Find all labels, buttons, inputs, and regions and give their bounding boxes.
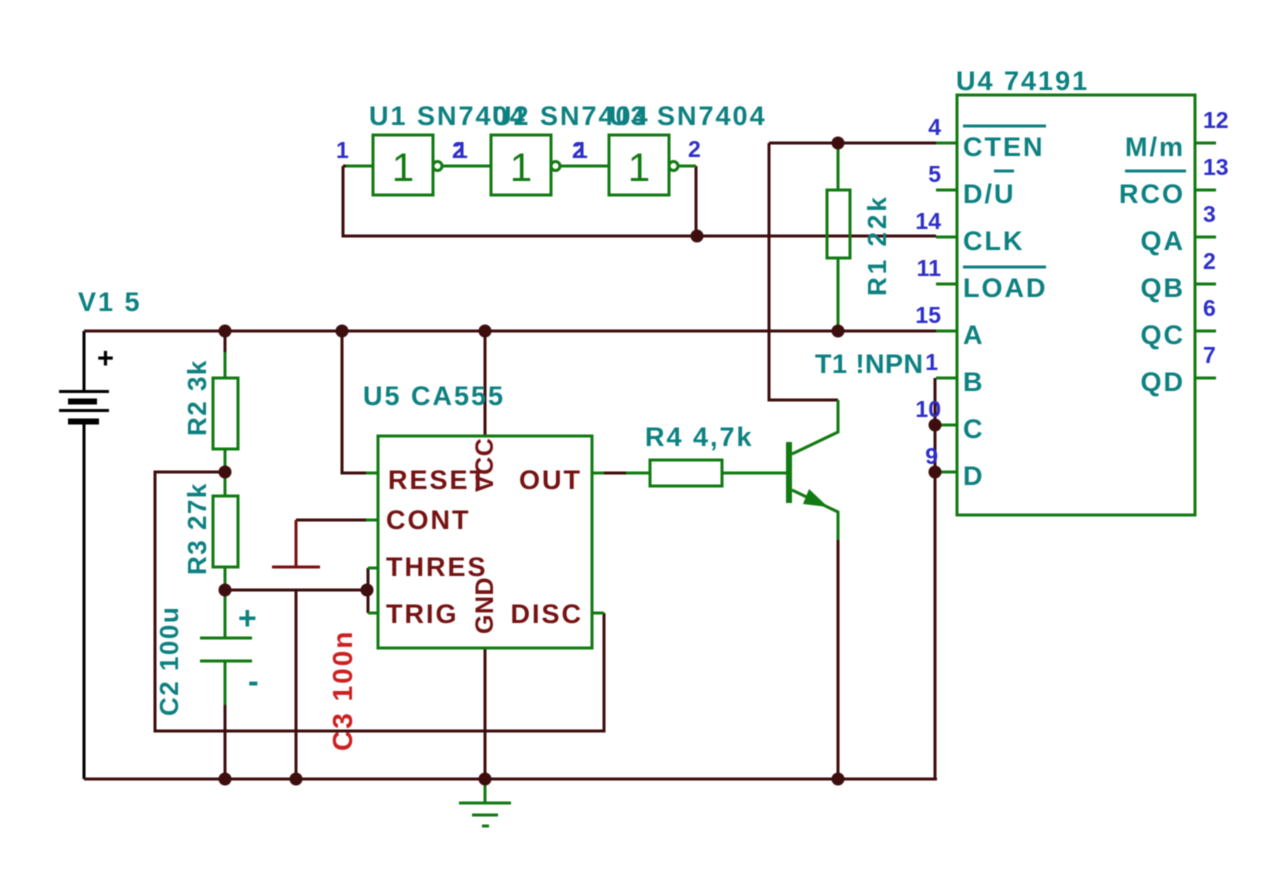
resistor R2 xyxy=(213,352,238,471)
svg-text:B: B xyxy=(963,367,985,397)
pin QB xyxy=(1141,248,1217,303)
svg-text:R2 3k: R2 3k xyxy=(182,359,212,436)
wire T1 emitter to ground rail xyxy=(837,538,840,779)
svg-text:4: 4 xyxy=(928,114,941,140)
svg-text:R3 27k: R3 27k xyxy=(182,482,212,575)
wire U5 VCC to rail xyxy=(484,331,487,436)
pin CLK xyxy=(915,208,1024,256)
junction pin D xyxy=(929,466,942,479)
svg-text:CONT: CONT xyxy=(386,505,471,535)
junction ground rail emitter xyxy=(832,773,845,786)
svg-text:U4 74191: U4 74191 xyxy=(956,66,1089,96)
junction CLK net xyxy=(691,230,704,243)
wire R3 to THRES xyxy=(225,589,367,592)
svg-text:T1 !NPN: T1 !NPN xyxy=(815,349,924,379)
svg-text:9: 9 xyxy=(925,443,938,469)
junction node A rail R1 xyxy=(832,325,845,338)
transistor T1 xyxy=(786,400,838,540)
inverter U3 xyxy=(609,135,696,195)
svg-text:1: 1 xyxy=(925,349,938,375)
svg-text:C2 100u: C2 100u xyxy=(154,606,184,716)
svg-text:+: + xyxy=(97,343,114,375)
svg-text:C3 100n: C3 100n xyxy=(327,630,358,751)
svg-text:R1 22k: R1 22k xyxy=(862,194,892,296)
svg-text:12: 12 xyxy=(1203,107,1229,133)
svg-text:CTEN: CTEN xyxy=(963,132,1045,162)
svg-text:QA: QA xyxy=(1141,226,1186,256)
svg-text:D: D xyxy=(963,461,985,491)
pin RCO xyxy=(1119,154,1229,209)
svg-text:QB: QB xyxy=(1141,273,1186,303)
svg-text:U5 CA555: U5 CA555 xyxy=(363,381,505,411)
op-amp U5 CA555 box xyxy=(378,436,592,648)
wire U5 GND to ground rail xyxy=(484,648,487,779)
svg-text:TRIG: TRIG xyxy=(386,599,459,629)
pin TRIG xyxy=(368,599,459,629)
junction ground rail gnd symbol xyxy=(479,773,492,786)
svg-text:LOAD: LOAD xyxy=(963,273,1048,303)
junction THRES TRIG xyxy=(361,584,374,597)
wire top rail VCC xyxy=(84,330,936,333)
pin QC xyxy=(1141,295,1217,350)
svg-text:A: A xyxy=(963,320,985,350)
junction ground rail C2 xyxy=(219,773,232,786)
pin C xyxy=(915,396,984,444)
svg-text:13: 13 xyxy=(1203,154,1229,180)
svg-text:2: 2 xyxy=(688,136,701,162)
wire CTEN net xyxy=(769,143,936,400)
inverter U1 xyxy=(343,135,491,195)
svg-text:5: 5 xyxy=(928,161,941,187)
svg-text:11: 11 xyxy=(917,255,942,281)
wire R2 top xyxy=(224,331,227,353)
battery V1 xyxy=(59,331,114,779)
pin B xyxy=(925,349,984,397)
junction R2 R3 DISC xyxy=(219,466,232,479)
svg-text:1: 1 xyxy=(336,137,349,163)
pin M/m xyxy=(1125,107,1229,162)
svg-text:R4 4,7k: R4 4,7k xyxy=(645,422,754,452)
junction node A rail R2 xyxy=(219,325,232,338)
svg-text:-: - xyxy=(248,663,261,699)
wire DISC net xyxy=(155,472,604,731)
pin CTEN xyxy=(928,114,1046,162)
IC U4 74191 box xyxy=(957,95,1195,515)
junction R3 C2 THRES xyxy=(219,584,232,597)
pin CONT xyxy=(366,505,471,535)
pin RESET xyxy=(366,465,488,495)
pin QD xyxy=(1141,342,1217,397)
svg-text:7: 7 xyxy=(1203,342,1216,368)
wire feedback and CLK net xyxy=(343,166,936,236)
svg-text:QD: QD xyxy=(1141,367,1186,397)
svg-text:U3 SN7404: U3 SN7404 xyxy=(609,101,767,131)
svg-text:C: C xyxy=(963,414,985,444)
wire B C D pins to ground rail xyxy=(934,378,937,779)
wire RESET net xyxy=(342,331,366,473)
svg-text:OUT: OUT xyxy=(519,465,582,495)
svg-text:RCO: RCO xyxy=(1119,179,1185,209)
junction ground rail C3 xyxy=(290,773,303,786)
svg-text:D/U: D/U xyxy=(963,179,1016,209)
wire bottom rail ground xyxy=(84,778,937,781)
pin D xyxy=(925,443,984,491)
svg-text:3: 3 xyxy=(1203,201,1216,227)
pin DISC xyxy=(510,599,604,629)
resistor R1 xyxy=(827,143,850,331)
svg-text:10: 10 xyxy=(915,396,941,422)
svg-text:6: 6 xyxy=(1203,295,1216,321)
capacitor C3 xyxy=(272,520,320,779)
svg-text:+: + xyxy=(238,600,259,636)
resistor R3 xyxy=(213,473,238,589)
junction node A rail RESET xyxy=(336,325,349,338)
wire OUT net xyxy=(592,472,604,475)
capacitor C2 xyxy=(200,592,261,705)
svg-text:CLK: CLK xyxy=(963,226,1025,256)
pin D/U xyxy=(928,161,1015,209)
pin LOAD xyxy=(917,255,1048,303)
svg-text:M/m: M/m xyxy=(1125,132,1185,162)
svg-text:2: 2 xyxy=(1203,248,1216,274)
svg-text:1: 1 xyxy=(392,146,414,190)
wire gate3 output to CLK net xyxy=(695,166,698,236)
ground xyxy=(459,779,511,826)
svg-text:15: 15 xyxy=(915,302,941,328)
pin A xyxy=(915,302,984,350)
svg-text:VCC: VCC xyxy=(471,438,499,492)
resistor R4 xyxy=(626,460,786,486)
pin QA xyxy=(1141,201,1217,256)
inverter U2 xyxy=(491,135,609,195)
svg-text:QC: QC xyxy=(1141,320,1186,350)
junction CTEN R1 xyxy=(832,137,845,150)
svg-text:1: 1 xyxy=(575,137,588,163)
svg-text:DISC: DISC xyxy=(510,599,583,629)
pin THRES xyxy=(368,552,488,582)
wire C2 bottom to rail xyxy=(224,703,227,779)
svg-text:1: 1 xyxy=(628,146,650,190)
svg-text:14: 14 xyxy=(915,208,941,234)
junction pin C xyxy=(929,419,942,432)
svg-text:1: 1 xyxy=(455,137,468,163)
wire CONT net xyxy=(296,519,366,522)
svg-text:GND: GND xyxy=(471,577,499,634)
wire THRES TRIG bracket xyxy=(367,568,370,613)
svg-text:1: 1 xyxy=(510,146,532,190)
svg-text:V1 5: V1 5 xyxy=(78,287,142,317)
junction node A rail VCC U5 xyxy=(479,325,492,338)
